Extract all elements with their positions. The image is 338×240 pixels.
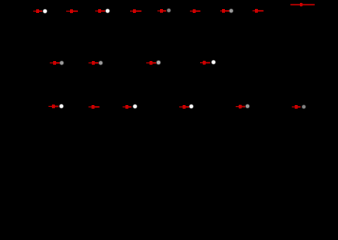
particle 5 (dim gray ball) xyxy=(166,8,171,13)
particle 3 (white ball) xyxy=(105,8,111,14)
particle 6 arrow xyxy=(190,9,200,13)
particle 13 arrow xyxy=(200,61,210,65)
particle 17 (white ball) xyxy=(189,104,195,110)
particle 17 arrow xyxy=(179,105,189,109)
particle 14 arrow xyxy=(49,105,59,109)
particle 9 arrow (long) xyxy=(290,3,314,7)
particle 1 (white ball) xyxy=(42,8,48,14)
particle 19 arrow xyxy=(292,105,301,109)
particle 5 arrow xyxy=(157,9,166,13)
particle 19 (dim gray ball) xyxy=(301,104,306,109)
particle 13 (white ball) xyxy=(211,59,217,64)
particle 11 arrow xyxy=(89,61,99,65)
particle 18 arrow xyxy=(236,105,245,109)
particle 15 arrow xyxy=(89,105,100,109)
particle 1 arrow xyxy=(33,9,42,13)
particle 18 (gray ball) xyxy=(245,104,250,109)
particle 10 arrow xyxy=(50,61,60,65)
particle 12 arrow xyxy=(146,61,156,65)
particle 10 (gray ball) xyxy=(59,60,64,65)
particle 3 arrow xyxy=(95,9,105,13)
particle 11 (gray ball) xyxy=(98,60,103,65)
particle 2 arrow xyxy=(66,9,78,13)
particle 8 arrow xyxy=(253,9,264,13)
particle 16 arrow xyxy=(123,105,132,109)
particle 7 (gray ball) xyxy=(229,8,234,13)
particle 14 (white ball) xyxy=(59,103,65,109)
particle 7 arrow xyxy=(220,9,229,13)
particle 12 (light gray ball) xyxy=(156,60,162,66)
particle 16 (white ball) xyxy=(132,104,138,110)
particle 4 arrow xyxy=(130,9,141,13)
